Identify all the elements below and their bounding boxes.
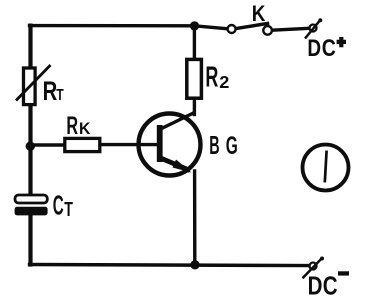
resistor R2 xyxy=(187,59,230,98)
thermistor RT body xyxy=(24,68,36,105)
wire top node to R2 xyxy=(193,26,196,60)
circled 1 digit stroke xyxy=(325,151,327,183)
terminal DC- slash xyxy=(303,258,323,279)
terminal DC+ xyxy=(305,18,346,61)
svg-text:D: D xyxy=(308,271,323,297)
transistor BG xyxy=(139,113,238,176)
terminal DC+ slash xyxy=(305,19,321,38)
node bottom (junction dot) xyxy=(190,260,199,269)
capacitor CT bottom plate xyxy=(15,207,48,216)
capacitor CT top plate xyxy=(15,195,47,203)
svg-text:K: K xyxy=(79,120,91,138)
wire left vertical lower xyxy=(28,215,32,265)
svg-text:C: C xyxy=(322,34,336,61)
svg-text:R: R xyxy=(66,113,78,140)
transistor BG emitter lead xyxy=(161,158,191,171)
resistor RK body xyxy=(65,138,100,151)
svg-text:R: R xyxy=(205,61,218,93)
transistor BG base bar xyxy=(157,125,163,162)
thermistor RT diagonal stroke xyxy=(16,65,51,101)
svg-text:R: R xyxy=(43,76,58,107)
svg-text:K: K xyxy=(252,2,266,27)
switch K left contact xyxy=(228,25,236,33)
switch K xyxy=(228,2,272,35)
capacitor CT xyxy=(15,190,74,221)
transistor BG emitter arrow xyxy=(173,160,192,173)
node top (junction dot) xyxy=(190,21,199,30)
terminal DC- circle xyxy=(310,263,317,270)
resistor RK xyxy=(65,113,100,152)
wire node to RK xyxy=(31,143,65,146)
terminal DC- xyxy=(303,257,350,297)
svg-text:C: C xyxy=(53,190,64,221)
node marker circled 1 xyxy=(303,145,349,191)
resistor R2 body xyxy=(187,59,202,98)
thermistor RT xyxy=(16,65,64,107)
wire emitter to bottom node xyxy=(193,171,197,265)
node left (junction dot) xyxy=(26,142,35,151)
svg-text:C: C xyxy=(323,271,338,297)
wire left vertical upper xyxy=(28,26,32,195)
switch K right contact xyxy=(263,26,272,35)
terminal DC+ circle xyxy=(310,25,317,32)
switch K lever xyxy=(236,23,269,28)
svg-text:G: G xyxy=(226,132,238,160)
circled 1 ring xyxy=(303,145,349,191)
svg-text:D: D xyxy=(307,34,321,62)
transistor BG envelope circle xyxy=(139,114,201,176)
wire R2 to collector xyxy=(193,98,196,115)
transistor BG collector lead xyxy=(161,113,195,130)
wire bottom from left corner to DC- terminal xyxy=(30,265,310,266)
wire top from left corner to switch xyxy=(30,26,228,29)
svg-text:2: 2 xyxy=(219,72,229,92)
svg-text:T: T xyxy=(64,198,73,221)
wire switch to DC+ terminal xyxy=(272,28,310,30)
svg-text:B: B xyxy=(209,132,219,160)
svg-text:T: T xyxy=(56,85,64,103)
wire RK to base xyxy=(100,143,159,146)
